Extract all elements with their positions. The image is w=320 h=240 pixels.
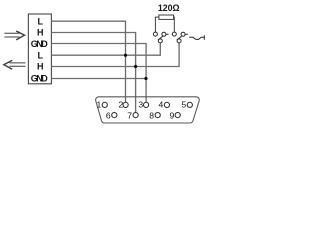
terminal block (L H GND L H GND) — [28, 14, 51, 84]
svg-text:3: 3 — [138, 100, 143, 110]
svg-text:H: H — [37, 62, 44, 72]
svg-text:120Ω: 120Ω — [158, 2, 180, 13]
svg-text:7: 7 — [127, 110, 132, 120]
junction dot GND — [144, 77, 147, 80]
wire H1 (to pin7 drop) — [51, 33, 135, 113]
switch pole 1 common — [158, 39, 162, 43]
switch pole 1 lever — [158, 34, 169, 40]
svg-text:GND: GND — [31, 74, 49, 84]
wire H2 (to right switch common) — [51, 43, 179, 67]
svg-text:6: 6 — [106, 110, 111, 120]
switch pole 2 lever — [177, 34, 188, 40]
arrow out (left-pointing double arrow) — [4, 60, 26, 69]
svg-text:GND: GND — [31, 39, 49, 49]
switch pole 2 contact a — [172, 32, 176, 36]
resistor body — [159, 15, 174, 19]
junction dot L — [124, 54, 127, 57]
arrow in (right-pointing double arrow) — [4, 31, 24, 40]
switch pole 1 contact b — [162, 32, 166, 36]
switch pole 2 contact b — [181, 32, 185, 36]
DB9 connector outline — [96, 97, 200, 123]
svg-text:L: L — [37, 50, 43, 60]
wire GND2 (to pin3 vertical) — [51, 78, 146, 80]
junction dot H — [134, 65, 137, 68]
terminal labels — [31, 16, 49, 83]
svg-text:L: L — [37, 16, 43, 26]
svg-text:1: 1 — [97, 100, 102, 110]
svg-text:9: 9 — [170, 110, 175, 120]
svg-text:4: 4 — [159, 100, 164, 110]
switch pole 2 common — [177, 39, 181, 43]
resistor right lead — [173, 17, 176, 32]
svg-text:8: 8 — [149, 110, 154, 120]
wire L2 (to left switch common) — [51, 43, 160, 56]
wire L1 (top L row to pin2 drop) — [51, 21, 125, 102]
svg-text:5: 5 — [181, 100, 186, 110]
svg-text:H: H — [37, 28, 44, 38]
resistor left lead — [155, 17, 159, 32]
bus continuation symbol (wave + bar) — [189, 35, 204, 40]
wire GND1 (to pin3 drop) — [51, 44, 146, 103]
switch pole 1 contact a — [153, 32, 157, 36]
